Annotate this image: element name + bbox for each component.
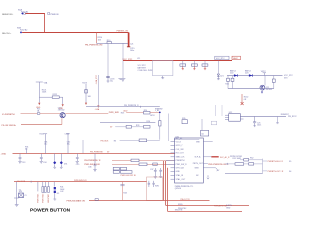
stub from W2 at x96 bbox=[96, 32, 98, 43]
wire stub join bbox=[97, 42, 105, 44]
svg-text:D23: D23 bbox=[245, 73, 248, 75]
chain resistor lead bbox=[159, 126, 161, 140]
y200.5 comp marks bbox=[95, 199, 98, 201]
diode D21 symbol bbox=[217, 74, 219, 76]
resistor R30 bbox=[139, 139, 147, 142]
svg-text:R23: R23 bbox=[121, 112, 124, 114]
svg-text:PWR-SW-MAIN ON: PWR-SW-MAIN ON bbox=[67, 200, 86, 203]
svg-text:R28: R28 bbox=[136, 125, 139, 127]
U31 right pin top wire bbox=[203, 141, 212, 143]
svg-text:PWRON: PWRON bbox=[50, 14, 58, 16]
row1 resistor bbox=[131, 159, 139, 162]
wire W1 corner vertical bbox=[44, 14, 46, 33]
svg-text:PWRBTN-OUT# R: PWRBTN-OUT# R bbox=[268, 171, 284, 173]
wire A right bbox=[65, 113, 108, 115]
CP2 red ground mark bbox=[193, 66, 195, 70]
cluster box d bbox=[120, 171, 132, 174]
svg-text:+V3A: +V3A bbox=[1, 153, 7, 156]
junction stub bbox=[261, 91, 263, 94]
red pair vertical 2 bbox=[165, 161, 167, 206]
Z1 ground bbox=[53, 165, 56, 169]
diode drop from rail bbox=[217, 61, 219, 74]
svg-text:PB-OUT R: PB-OUT R bbox=[181, 199, 191, 201]
svg-text:NB-ON#--: NB-ON#-- bbox=[2, 33, 12, 35]
resistor drop R25 bbox=[227, 76, 229, 89]
battery ground bbox=[161, 76, 164, 79]
svg-text:100n: 100n bbox=[130, 50, 134, 52]
row2 resistor bbox=[139, 163, 147, 166]
wire W1 horizontal bbox=[25, 13, 45, 15]
cap pair CP2 divider bbox=[193, 61, 195, 66]
svg-text:R202 A2: R202 A2 bbox=[20, 29, 27, 32]
svg-text:R44: R44 bbox=[123, 193, 126, 195]
svg-text:C35: C35 bbox=[76, 164, 79, 166]
box sub U23 bbox=[201, 119, 203, 130]
pale box right bbox=[211, 121, 216, 125]
rotated label col1 bbox=[38, 194, 40, 203]
svg-text:NBSWON#-: NBSWON#- bbox=[2, 14, 14, 16]
crystal drop wire bbox=[16, 182, 18, 193]
Q22 inner bbox=[62, 113, 64, 117]
IC U31 body bbox=[175, 138, 204, 183]
svg-text:100K: 100K bbox=[42, 92, 47, 94]
resistor col RC bbox=[48, 187, 50, 193]
cap pair CP3 divider bbox=[204, 61, 206, 66]
connector pin J2 bbox=[20, 31, 22, 33]
cap drop4 bbox=[93, 154, 96, 172]
svg-text:BAT54: BAT54 bbox=[245, 70, 251, 73]
cap C at x108 bbox=[106, 76, 109, 77]
resistor R28 bbox=[126, 126, 131, 129]
net y126.8 line bbox=[115, 126, 143, 128]
svg-text:C42: C42 bbox=[60, 191, 63, 193]
row1 line bbox=[112, 159, 175, 161]
svg-text:LED-PWR: LED-PWR bbox=[48, 193, 50, 202]
SLP red bold segment bbox=[211, 156, 218, 158]
svg-text:D21: D21 bbox=[220, 76, 223, 78]
power arrow red x98 bbox=[97, 106, 99, 108]
U22 right pin stub2 bbox=[240, 118, 243, 120]
right row2 tick bbox=[227, 163, 229, 165]
FET Q22 circle bbox=[60, 113, 65, 118]
button box outline bbox=[147, 177, 163, 201]
svg-text:GPIO_7: GPIO_7 bbox=[176, 145, 183, 147]
right row2 resistor1 bbox=[235, 163, 244, 166]
U22 left pins bbox=[225, 115, 229, 119]
cap pair CP1 bbox=[180, 64, 186, 66]
cap pair CP1 divider bbox=[182, 61, 184, 66]
resistor drop R26 bbox=[232, 76, 234, 89]
right battery line bbox=[227, 75, 283, 77]
cap C25 bbox=[253, 116, 256, 126]
dot chain resistor bbox=[159, 113, 161, 120]
cap drop1 bbox=[18, 154, 21, 164]
SLP pin wire bbox=[203, 156, 211, 158]
cap drop3 bbox=[76, 154, 79, 164]
stub vertical x222 bbox=[221, 105, 223, 116]
cap pair CP2 bbox=[192, 64, 198, 66]
mid net y181.7 bbox=[14, 181, 147, 183]
right row2 left line bbox=[225, 163, 263, 165]
svg-text:100n: 100n bbox=[257, 124, 261, 126]
cluster box a bbox=[113, 167, 119, 170]
connector pin J1 bbox=[21, 12, 23, 14]
svg-text:R3: R3 bbox=[114, 140, 116, 142]
cap pair CP3 bbox=[202, 64, 208, 66]
svg-text:PWR_SW#: PWR_SW# bbox=[109, 112, 120, 114]
cluster box c bbox=[113, 171, 119, 174]
vertical x122.5 bbox=[122, 182, 124, 201]
mid horizontal net y106.8 bbox=[86, 106, 160, 108]
svg-text:PM_RST#: PM_RST# bbox=[288, 116, 298, 118]
vertical net line x98.3 bbox=[97, 75, 99, 106]
crystal Y1 body bbox=[19, 193, 24, 198]
svg-text:R225: R225 bbox=[40, 133, 45, 135]
diode ground bbox=[217, 77, 220, 80]
svg-text:GPIO: GPIO bbox=[150, 115, 155, 117]
pin box J1 bbox=[24, 13, 26, 15]
CP3 red ground mark bbox=[204, 66, 206, 70]
svg-text:C21: C21 bbox=[130, 44, 133, 46]
wire B line bbox=[21, 124, 62, 126]
svg-text:R26: R26 bbox=[225, 84, 228, 86]
bottom net y211.4 bbox=[168, 211, 242, 213]
svg-text:VCC_RTC: VCC_RTC bbox=[123, 59, 133, 61]
Z2 diamond bbox=[60, 161, 63, 164]
svg-text:VBAT: VBAT bbox=[233, 57, 239, 60]
SMI pin wire bbox=[203, 167, 215, 169]
IC U22 body bbox=[229, 114, 241, 122]
wire W2 main horizontal bbox=[22, 32, 129, 34]
diode D23 bbox=[249, 74, 253, 76]
svg-text:PM_PWRBTN#: PM_PWRBTN# bbox=[90, 151, 104, 153]
U31 left pin stubs bbox=[166, 142, 175, 180]
svg-text:PWR_SW_R: PWR_SW_R bbox=[176, 164, 188, 166]
rail up stub2 bbox=[44, 134, 48, 154]
series resistor R24 bbox=[144, 111, 151, 114]
bottom net y200.5 bbox=[89, 200, 210, 202]
crystal X marks bbox=[19, 193, 24, 198]
svg-text:L21: L21 bbox=[137, 58, 140, 60]
net y122.4 bbox=[100, 122, 155, 124]
cap x108 ground lead bbox=[107, 78, 110, 82]
cap drop2 bbox=[40, 154, 43, 164]
D22 bar bbox=[237, 74, 239, 77]
wire A mid bbox=[40, 113, 60, 115]
drop x37.9 bbox=[37, 182, 39, 192]
svg-text:+V3A_RTC: +V3A_RTC bbox=[95, 74, 98, 84]
bottom net y205.3 bbox=[166, 205, 249, 207]
svg-text:POWER BUTTON: POWER BUTTON bbox=[30, 208, 71, 214]
svg-text:PBTN_OUT: PBTN_OUT bbox=[193, 163, 204, 165]
svg-text:PM_SUS: PM_SUS bbox=[101, 140, 110, 142]
red vertical x242 bbox=[241, 94, 243, 104]
svg-text:PWRBTN-DEL# R: PWRBTN-DEL# R bbox=[268, 161, 284, 163]
tick on net bbox=[139, 106, 141, 108]
svg-text:10u: 10u bbox=[110, 80, 113, 82]
D23 bar bbox=[252, 74, 254, 77]
svg-text:PWR-SW1: PWR-SW1 bbox=[38, 194, 40, 203]
svg-text:C36: C36 bbox=[88, 167, 91, 169]
chain drop right bbox=[62, 97, 64, 104]
row2 line bbox=[112, 163, 175, 165]
IC caps left V2 bbox=[159, 168, 162, 178]
left mid chain tee bar bbox=[36, 82, 43, 97]
cap bar at x123 bottom bbox=[118, 78, 125, 79]
svg-text:COIN CELL PWR: COIN CELL PWR bbox=[138, 70, 153, 72]
row2 resistor2b bbox=[153, 163, 157, 165]
red vertical 3 bbox=[167, 168, 169, 212]
svg-text:VRTC: VRTC bbox=[261, 71, 267, 73]
chain drop left bbox=[38, 97, 40, 102]
right row2 resistor2 bbox=[249, 163, 254, 165]
svg-text:S5: S5 bbox=[289, 161, 291, 163]
chain horizontal bbox=[39, 96, 62, 98]
vertical at x108 bbox=[107, 43, 109, 76]
PBTN pin wire bbox=[203, 162, 208, 164]
drop wire x83 bbox=[82, 140, 84, 154]
stub vertical x215.3 bbox=[214, 105, 216, 116]
svg-text:C33: C33 bbox=[22, 162, 25, 164]
svg-text:10u: 10u bbox=[44, 144, 47, 146]
red X component bbox=[241, 102, 244, 105]
y181.7 tick bbox=[30, 181, 32, 183]
svg-text:Q5: Q5 bbox=[201, 133, 204, 135]
svg-text:XTAL_IN: XTAL_IN bbox=[176, 174, 184, 177]
rotated label col2 bbox=[43, 194, 45, 203]
resistor RB1 above IC bbox=[182, 120, 187, 124]
right bus vertical bbox=[262, 159, 264, 174]
U31 pin names bbox=[176, 141, 188, 181]
ground arrow red right bbox=[62, 104, 64, 106]
svg-text:GND: GND bbox=[176, 171, 181, 173]
wire W2 thick vertical bbox=[128, 33, 130, 47]
CP1 red ground mark bbox=[182, 66, 184, 70]
chain2 resistor body bbox=[85, 90, 88, 93]
U22 right pin wire bbox=[240, 116, 286, 118]
svg-text:VCC_RTC: VCC_RTC bbox=[216, 58, 226, 60]
svg-text:SW1: SW1 bbox=[155, 185, 159, 187]
VCC RTC rail red wire bbox=[123, 60, 232, 62]
rail up stub1 bbox=[26, 149, 28, 154]
Z1 diamond bbox=[53, 161, 56, 164]
right row1 line bbox=[240, 159, 263, 161]
diode D22 bbox=[234, 74, 238, 76]
transistor Q21 circle bbox=[260, 85, 265, 90]
LED bold bar1 bbox=[54, 187, 56, 189]
svg-text:0402: 0402 bbox=[123, 111, 127, 113]
wire A link bbox=[126, 112, 143, 114]
svg-text:PWR-SW-IN R: PWR-SW-IN R bbox=[74, 180, 87, 182]
svg-text:PWR LED R32 1K: PWR LED R32 1K bbox=[121, 175, 137, 177]
R26 body bbox=[231, 78, 234, 81]
svg-text:PM_PWRBTN_R: PM_PWRBTN_R bbox=[124, 105, 139, 107]
resistor col RA bbox=[42, 187, 44, 193]
netname box on rail bbox=[215, 56, 229, 60]
svg-text:SW-RTN: SW-RTN bbox=[175, 210, 183, 212]
svg-text:R52: R52 bbox=[250, 157, 253, 159]
rail up stub3 bbox=[66, 134, 70, 154]
svg-text:GND: GND bbox=[226, 207, 231, 209]
svg-text:C1: C1 bbox=[24, 195, 26, 197]
junction end of thick vertical bbox=[127, 46, 130, 48]
LED lower lead bbox=[53, 193, 56, 200]
cluster box b bbox=[120, 167, 126, 170]
Z2 ground bbox=[60, 165, 63, 169]
red flag box right end bbox=[232, 56, 241, 59]
rotated red net text column bbox=[95, 74, 98, 84]
svg-text:PWRSW_ON: PWRSW_ON bbox=[117, 31, 129, 33]
R25 body bbox=[227, 78, 230, 81]
svg-text:QFN16: QFN16 bbox=[175, 188, 181, 190]
svg-text:R10: R10 bbox=[107, 40, 110, 42]
pin box right of W1 bbox=[48, 12, 50, 14]
svg-text:R222: R222 bbox=[53, 94, 58, 96]
chain resistor body bbox=[159, 121, 161, 126]
col stubs bbox=[43, 182, 54, 187]
right row1 resistor bbox=[244, 159, 249, 161]
ground arrow red left bbox=[38, 103, 40, 105]
transistor drop bbox=[264, 76, 266, 86]
x122.5 comp marks bbox=[120, 185, 124, 186]
bottom rail bbox=[13, 153, 176, 155]
IC caps left V1 bbox=[154, 168, 157, 179]
junction dot A bbox=[159, 112, 161, 114]
resistor R210 body bbox=[107, 42, 111, 44]
Q21 inner marks bbox=[261, 86, 263, 90]
ground below x123 bbox=[122, 80, 124, 83]
svg-text:PM1-PWRBTN-OUT#: PM1-PWRBTN-OUT# bbox=[208, 164, 229, 166]
svg-text:XTAL_OUT: XTAL_OUT bbox=[176, 178, 186, 181]
navy wire to thick vertical bbox=[105, 42, 129, 44]
svg-text:R223: R223 bbox=[82, 82, 87, 84]
series resistor R222 bbox=[52, 96, 59, 98]
vertical x168.7 bbox=[168, 114, 170, 142]
svg-text:3V0: 3V0 bbox=[284, 78, 287, 80]
resistor col RB bbox=[44, 187, 46, 193]
svg-text:BAT54: BAT54 bbox=[230, 70, 236, 73]
svg-text:GPIO_A3: GPIO_A3 bbox=[176, 167, 184, 170]
chain2 vertical bbox=[85, 84, 87, 102]
svg-text:2N7002: 2N7002 bbox=[58, 110, 65, 112]
svg-text:D31: D31 bbox=[64, 163, 67, 165]
tee ground above line bbox=[263, 73, 266, 76]
bottom bus of battery cluster bbox=[228, 88, 274, 90]
net y140.3 line bbox=[120, 139, 160, 141]
svg-text:D5: D5 bbox=[57, 193, 59, 195]
svg-text:PM_PWRBTN_IN#: PM_PWRBTN_IN# bbox=[85, 44, 104, 46]
chain2 red end bbox=[85, 103, 87, 105]
wire A lead bbox=[21, 113, 38, 115]
out net2 stub bbox=[263, 170, 268, 172]
junction dot right bbox=[261, 91, 263, 93]
resistor drop R27 bbox=[273, 76, 275, 89]
svg-text:R35: R35 bbox=[182, 118, 185, 120]
R27 body bbox=[272, 79, 275, 82]
svg-text:J_B1: J_B1 bbox=[155, 110, 159, 112]
svg-text:CLK_32K: CLK_32K bbox=[176, 149, 185, 151]
resistor R29 bbox=[144, 126, 151, 129]
rotated label col3 bbox=[48, 193, 50, 202]
svg-text:SMB_CLK: SMB_CLK bbox=[176, 157, 186, 159]
svg-text:PM-PWRBTN# R: PM-PWRBTN# R bbox=[84, 160, 101, 162]
svg-text:PS-ON 330R A: PS-ON 330R A bbox=[2, 124, 17, 127]
svg-text:R24: R24 bbox=[144, 110, 147, 112]
out net1 stub bbox=[263, 160, 268, 162]
svg-text:R26: R26 bbox=[147, 121, 150, 123]
svg-text:INT_OUT: INT_OUT bbox=[176, 153, 185, 155]
svg-text:10u: 10u bbox=[67, 144, 70, 146]
vertical x277.5 bbox=[276, 116, 279, 123]
svg-text:SLP_A#_R: SLP_A#_R bbox=[220, 156, 230, 159]
right bottom bus bbox=[225, 173, 263, 175]
svg-text:R205: R205 bbox=[178, 204, 183, 206]
U31 right pin names bbox=[193, 141, 204, 177]
svg-text:PWR-SW2: PWR-SW2 bbox=[43, 194, 45, 203]
zener Z1 bbox=[54, 154, 56, 161]
svg-text:S4: S4 bbox=[289, 171, 291, 173]
svg-text:D22: D22 bbox=[230, 73, 233, 75]
svg-text:PWRBTN#: PWRBTN# bbox=[176, 160, 186, 162]
net y139.7 bbox=[174, 139, 199, 141]
svg-text:C37: C37 bbox=[150, 169, 153, 171]
battery outline box under rail bbox=[153, 61, 173, 76]
svg-text:VCC3: VCC3 bbox=[176, 141, 181, 143]
svg-text:+V3A: +V3A bbox=[95, 108, 100, 111]
crystal wires bbox=[14, 193, 19, 207]
svg-text:2N7002: 2N7002 bbox=[266, 89, 273, 91]
svg-text:IO-PWRBTN#: IO-PWRBTN# bbox=[2, 114, 16, 116]
svg-text:SLP_A: SLP_A bbox=[195, 156, 202, 159]
svg-text:C34: C34 bbox=[43, 162, 46, 164]
U23 body bbox=[201, 130, 209, 136]
button cap1 bbox=[148, 181, 150, 187]
red pair vertical 1 bbox=[163, 161, 165, 201]
LED bold bar2 bbox=[54, 191, 56, 193]
small fuse marks bbox=[37, 113, 40, 115]
long vertical at x123 bbox=[122, 43, 124, 78]
button cap2 bbox=[152, 181, 154, 187]
NC down arrow bbox=[207, 175, 209, 179]
zener Z2 bbox=[60, 154, 62, 161]
wire B riser to FET gate bbox=[61, 118, 63, 124]
SMI end arrow bbox=[216, 168, 220, 171]
wire A to dot bbox=[150, 112, 159, 114]
svg-text:PWR-SW-R 10R: PWR-SW-R 10R bbox=[84, 164, 100, 166]
